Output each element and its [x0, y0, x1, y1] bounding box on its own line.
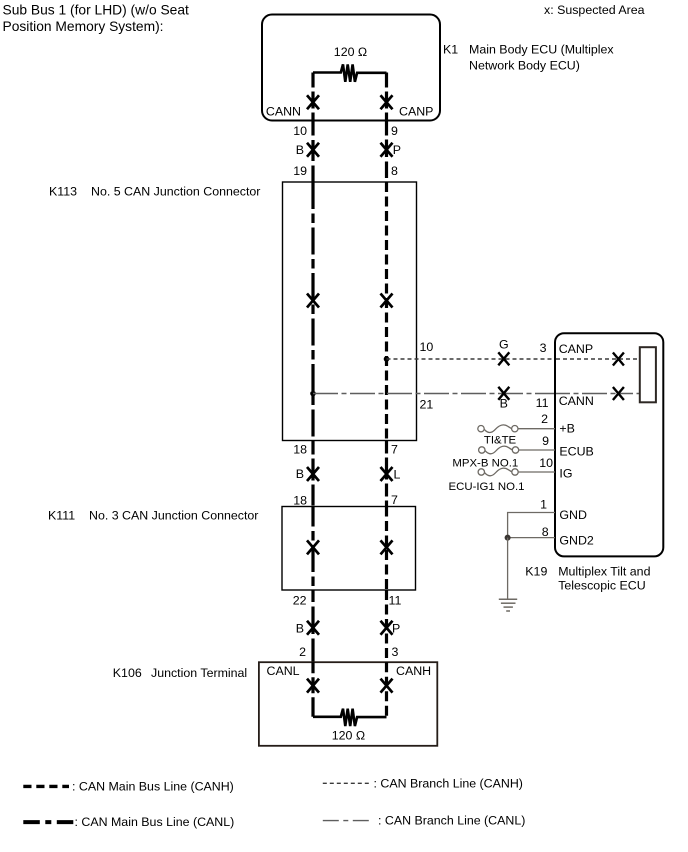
suspect X on P wire (lower) [381, 621, 393, 635]
svg-text:ECU-IG1 NO.1: ECU-IG1 NO.1 [449, 481, 525, 493]
svg-text:No. 3 CAN Junction Connector: No. 3 CAN Junction Connector [89, 509, 258, 523]
suspect X on CANH in K113 [381, 294, 393, 308]
K1 label [443, 43, 614, 73]
junction node GND/GND2 [505, 535, 511, 541]
suspect X on CANP inside K19 [613, 353, 624, 366]
svg-text:Position Memory System):: Position Memory System): [3, 19, 164, 34]
svg-text:9: 9 [542, 434, 549, 448]
svg-text:19: 19 [293, 164, 307, 178]
svg-text:B: B [296, 143, 304, 157]
terminating connector pin rect [640, 347, 656, 402]
svg-text:MPX-B NO.1: MPX-B NO.1 [452, 458, 518, 470]
suspect X on CANL in K111 [307, 540, 319, 554]
svg-text:7: 7 [391, 443, 398, 457]
junction terminal K106 box [259, 662, 437, 746]
svg-text:18: 18 [293, 443, 307, 457]
fuse ECU-IG1 NO.1 symbol [478, 468, 518, 476]
junction connector K111 box [282, 507, 416, 591]
K106 label [113, 666, 247, 680]
svg-text:10: 10 [293, 124, 307, 138]
wire CANL inside K111 [311, 507, 314, 591]
wire CANP inside K19 [556, 358, 640, 360]
svg-text:7: 7 [391, 493, 398, 507]
branch wire CANL to K19 pin 11 [313, 393, 555, 395]
wire CANH vertical in K1 [385, 73, 388, 121]
svg-text:21: 21 [420, 398, 434, 412]
suspect X on B wire (lower) [307, 621, 319, 635]
fuse TI&TE symbol [478, 425, 518, 433]
ground symbol [499, 599, 517, 611]
svg-text:Main Body ECU (Multiplex: Main Body ECU (Multiplex [469, 43, 614, 57]
svg-text:11: 11 [536, 396, 549, 410]
svg-text:K1: K1 [443, 43, 458, 57]
wire CANL vertical in K1 [311, 73, 314, 121]
wire CANL K113 to K111 [311, 441, 314, 507]
wire GND2 [508, 537, 555, 539]
suspect X on CANL in K106 [307, 679, 319, 693]
svg-text:CANN: CANN [559, 394, 594, 408]
suspect X on P wire [381, 143, 393, 157]
svg-text:B: B [296, 622, 304, 636]
suspect X on CANN in K1 [307, 95, 319, 109]
svg-text:CANL: CANL [267, 664, 300, 678]
svg-text:: CAN Branch Line (CANH): : CAN Branch Line (CANH) [374, 776, 523, 790]
svg-text:CANN: CANN [266, 104, 301, 118]
K113 label [49, 184, 260, 198]
svg-text:B: B [500, 397, 508, 411]
svg-text:: CAN Main Bus Line (CANH): : CAN Main Bus Line (CANH) [72, 779, 234, 793]
svg-text:18: 18 [293, 494, 307, 508]
svg-text:10: 10 [539, 456, 553, 470]
title text [3, 3, 189, 34]
wire CANH inside K113 [385, 182, 388, 441]
svg-text:10: 10 [420, 340, 434, 354]
fuse MPX-B wire [519, 449, 556, 451]
svg-text:Sub Bus 1 (for LHD) (w/o Seat: Sub Bus 1 (for LHD) (w/o Seat [3, 3, 189, 18]
K111 label [48, 509, 258, 523]
wire CANH inside K106 [385, 662, 388, 717]
svg-text:2: 2 [299, 645, 306, 659]
svg-text:Network Body ECU): Network Body ECU) [469, 58, 580, 72]
svg-text:Telescopic ECU: Telescopic ECU [558, 579, 645, 593]
svg-text:: CAN Branch Line (CANL): : CAN Branch Line (CANL) [378, 814, 525, 828]
wire CANH K113 to K111 [385, 441, 388, 507]
svg-text:CANH: CANH [396, 664, 431, 678]
svg-text:8: 8 [391, 164, 398, 178]
svg-text:120 Ω: 120 Ω [332, 729, 365, 743]
svg-text:No. 5 CAN Junction Connector: No. 5 CAN Junction Connector [91, 184, 260, 198]
suspect X on L wire (middle) [381, 467, 393, 481]
resistor R-term (top) [313, 64, 387, 81]
fuse TI&TE wire [518, 428, 555, 430]
suspect X on branch CANH [498, 352, 509, 365]
branch wire CANH to K19 pin 3 [387, 358, 556, 360]
wire CANL K1 to K113 [311, 121, 314, 183]
fuse MPX-B NO.1 symbol [479, 446, 519, 454]
wire CANN inside K19 [556, 393, 640, 395]
ECU K1 box [262, 15, 440, 121]
svg-text:ECUB: ECUB [559, 444, 593, 458]
wire to ground [507, 538, 509, 600]
svg-text:3: 3 [392, 645, 399, 659]
wire CANH K111 to K106 [385, 590, 388, 662]
junction node on CANL (branch to K19 CANN) [310, 391, 316, 397]
svg-text:GND: GND [559, 508, 587, 522]
legend main bus CANH sample [23, 785, 69, 788]
svg-text:8: 8 [542, 525, 549, 539]
svg-text:K113: K113 [49, 184, 77, 198]
svg-text:L: L [394, 468, 401, 482]
svg-text:B: B [296, 467, 304, 481]
suspect X on branch CANL [498, 387, 509, 400]
K19 label [525, 564, 650, 592]
suspect X on B wire (middle) [307, 467, 319, 481]
svg-text:K19: K19 [525, 564, 547, 578]
svg-text:P: P [392, 622, 400, 636]
legend main bus CANL sample [23, 820, 73, 824]
suspect X on CANN inside K19 [613, 387, 624, 400]
junction node on CANH (branch to K19 CANP) [384, 356, 390, 362]
svg-text:22: 22 [293, 594, 307, 608]
legend branch CANH sample [323, 782, 371, 784]
wire CANL K111 to K106 [311, 590, 314, 662]
legend branch CANL sample [323, 820, 369, 822]
wire CANH K1 to K113 [385, 121, 388, 183]
svg-text:TI&TE: TI&TE [484, 434, 517, 446]
svg-text:2: 2 [541, 412, 548, 426]
svg-text:IG: IG [559, 467, 572, 481]
svg-text:+B: +B [559, 422, 575, 436]
svg-text:G: G [499, 337, 509, 351]
svg-text:1: 1 [540, 498, 547, 512]
suspect X on CANP in K1 [381, 95, 393, 109]
wire GND [508, 513, 555, 538]
wire CANL inside K113 [311, 182, 314, 441]
svg-text:K106: K106 [113, 666, 142, 680]
svg-text:: CAN Main Bus Line (CANL): : CAN Main Bus Line (CANL) [75, 815, 235, 829]
wire CANL inside K106 [311, 662, 314, 717]
svg-text:CANP: CANP [399, 104, 433, 118]
svg-text:P: P [393, 143, 401, 157]
svg-text:9: 9 [391, 124, 398, 138]
wire CANH inside K111 [385, 507, 388, 591]
suspect X on B wire [307, 143, 319, 157]
svg-text:120 Ω: 120 Ω [334, 45, 367, 59]
svg-text:GND2: GND2 [559, 533, 594, 547]
suspect X on CANL in K113 [307, 294, 319, 308]
suspect X on CANH in K106 [381, 679, 393, 693]
ECU K19 box [555, 333, 663, 556]
svg-text:Multiplex Tilt and: Multiplex Tilt and [558, 564, 650, 578]
resistor R-term (bottom) [313, 709, 387, 726]
svg-text:x: Suspected Area: x: Suspected Area [544, 3, 645, 17]
fuse ECU-IG1 wire [518, 471, 555, 473]
suspect X on CANH in K111 [381, 540, 393, 554]
svg-text:11: 11 [389, 593, 402, 607]
svg-text:CANP: CANP [559, 342, 593, 356]
svg-text:K111: K111 [48, 509, 75, 523]
svg-text:Junction Terminal: Junction Terminal [151, 666, 247, 680]
svg-text:3: 3 [540, 341, 547, 355]
junction connector K113 box [283, 182, 417, 441]
